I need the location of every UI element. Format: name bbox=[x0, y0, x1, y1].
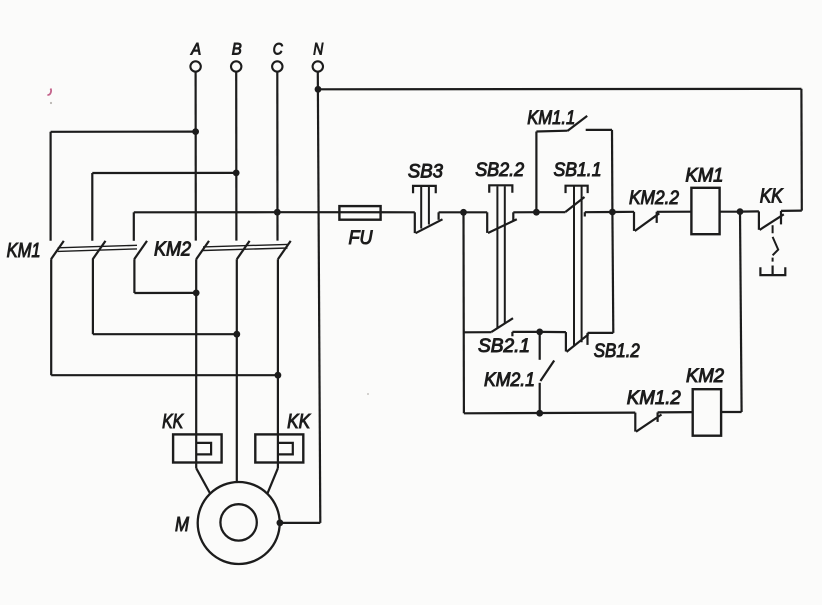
svg-text:SB2.2: SB2.2 bbox=[475, 160, 524, 181]
svg-text:KM1: KM1 bbox=[685, 166, 723, 187]
svg-text:KM1.2: KM1.2 bbox=[627, 388, 681, 409]
svg-text:SB2.1: SB2.1 bbox=[478, 336, 530, 357]
svg-text:B: B bbox=[232, 39, 242, 58]
svg-text:C: C bbox=[273, 39, 284, 58]
svg-text:KM2.1: KM2.1 bbox=[484, 370, 535, 391]
svg-text:KM1: KM1 bbox=[7, 240, 41, 262]
svg-text:KK: KK bbox=[760, 186, 784, 208]
svg-text:KM2.2: KM2.2 bbox=[629, 188, 679, 209]
svg-text:A: A bbox=[190, 39, 201, 58]
svg-text:KM2: KM2 bbox=[686, 366, 724, 387]
svg-text:SB1.2: SB1.2 bbox=[594, 341, 640, 362]
svg-text:SB1.1: SB1.1 bbox=[554, 160, 602, 181]
svg-text:M: M bbox=[175, 514, 189, 536]
svg-text:KM2: KM2 bbox=[154, 239, 191, 261]
svg-text:KM1.1: KM1.1 bbox=[527, 108, 575, 129]
svg-text:N: N bbox=[313, 39, 324, 58]
svg-text:SB3: SB3 bbox=[408, 162, 443, 183]
svg-text:KK: KK bbox=[287, 411, 311, 433]
svg-text:KK: KK bbox=[162, 411, 184, 433]
svg-text:FU: FU bbox=[349, 228, 373, 249]
